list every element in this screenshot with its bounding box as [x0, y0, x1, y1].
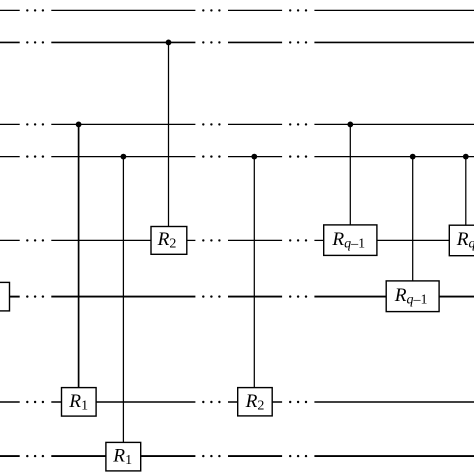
- control line V4 (q4 to R2 on q7): [251, 154, 257, 388]
- gate box Rq-1 on q5: [324, 225, 377, 256]
- wire q4: [0, 156, 474, 158]
- ellipsis dots wire q4: [26, 155, 307, 157]
- control line V1 (q3 to R1 on q7): [76, 122, 82, 388]
- ellipsis dots wire q5: [26, 239, 307, 241]
- gate box R2 on q5: [151, 227, 187, 255]
- control line V3 (q2 to R2 on q5): [166, 40, 172, 227]
- wire q8 (bottom qubit line): [0, 455, 474, 457]
- control line V7 (q4 to Rq on q5): [463, 154, 469, 225]
- gate box R1 on q7: [62, 388, 97, 417]
- wire q2: [0, 41, 474, 43]
- wire q6: [10, 296, 474, 298]
- ellipsis dots wire q3: [26, 123, 307, 125]
- wire q5: [0, 239, 449, 241]
- wire q1 (top qubit line): [0, 9, 474, 11]
- ellipsis dots wire q2: [26, 41, 307, 43]
- gate box Rq on q5 (cut at right edge): [449, 225, 474, 256]
- gate box R2 on q7: [238, 388, 273, 416]
- ellipsis dots wire q6: [26, 295, 307, 297]
- gate box R1 on q8: [106, 442, 141, 471]
- ellipsis dots wire q8: [26, 455, 307, 457]
- wire q7: [0, 401, 474, 403]
- ellipsis dots wire q7: [26, 401, 307, 403]
- wire q3: [0, 123, 474, 125]
- gate box Rq-1 on q6: [386, 281, 439, 312]
- control line V6 (q4 to Rq-1 on q6): [410, 154, 416, 281]
- ellipsis dots wire q1: [26, 9, 307, 11]
- gate box cut at left edge on q6: [0, 282, 10, 311]
- control line V5 (q3 to Rq-1 on q5): [347, 122, 353, 225]
- control line V2 (q4 to R1 on q8): [121, 154, 127, 443]
